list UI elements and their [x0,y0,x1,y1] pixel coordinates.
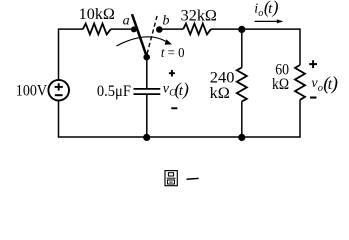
current arrow i_o [255,19,284,23]
svg-text:a: a [123,14,130,29]
value label 0.5μF [97,83,131,100]
wire switch pivot to capacitor [146,57,148,89]
value label 100V [16,82,48,99]
svg-text:b: b [163,14,170,29]
voltage source 100V [48,80,69,101]
wire 60k to bottom rail [299,100,301,137]
switch pivot node [143,54,150,61]
node b [156,26,163,33]
svg-text:10kΩ: 10kΩ [79,6,115,23]
svg-text:32kΩ: 32kΩ [181,7,217,24]
resistor 240kΩ [237,68,247,102]
switch dashed position (to b) [147,15,157,54]
node junction top (240k tap) [238,26,245,33]
figure caption 圖一 (Figure 1) [165,171,199,186]
svg-text:100V: 100V [16,82,48,99]
wire bottom rail [58,136,301,138]
value label 10kΩ [79,6,115,23]
label t = 0 [161,45,185,60]
svg-text:t = 0: t = 0 [161,45,185,60]
wire capacitor to bottom rail [146,94,148,137]
node junction bottom (capacitor) [143,134,150,141]
node junction bottom (240k) [238,134,245,141]
resistor 10kΩ [83,24,111,35]
wire 10k to node a [111,28,134,30]
capacitor polarity plus [169,70,175,77]
svg-text:kΩ: kΩ [272,76,289,93]
svg-text:kΩ: kΩ [210,85,230,102]
wire top junction to 240k [241,29,243,67]
resistor 60kΩ [295,65,305,100]
output polarity plus [309,60,317,68]
svg-text:io(t): io(t) [254,0,278,19]
node label a [123,14,130,29]
output polarity minus [310,97,316,99]
wire node b to 32k [159,28,183,30]
value label 240 kΩ [210,70,235,102]
node label b [163,14,170,29]
wire 240k to bottom rail [241,102,243,138]
current label i_o(t) [254,0,278,19]
wire left rail bottom (source to bottom rail) [58,101,60,138]
capacitor polarity minus [171,107,177,109]
wire 32k to top junction and top-right corner [211,28,300,30]
wire top-left (left rail top + run to 10k) [59,29,83,80]
capacitor C (0.5uF) [134,89,161,94]
voltage label v_C(t) [163,79,189,100]
resistor 32kΩ [183,24,211,35]
value label 60 kΩ [272,61,289,93]
svg-text:0.5μF: 0.5μF [97,83,131,100]
wire right rail top (to 60k) [299,28,301,65]
voltage label v_o(t) [311,73,338,94]
node a [131,26,137,32]
value label 32kΩ [181,7,217,24]
switch motion arc arrow [116,37,172,46]
switch lever (solid, closed on a) [132,14,147,57]
